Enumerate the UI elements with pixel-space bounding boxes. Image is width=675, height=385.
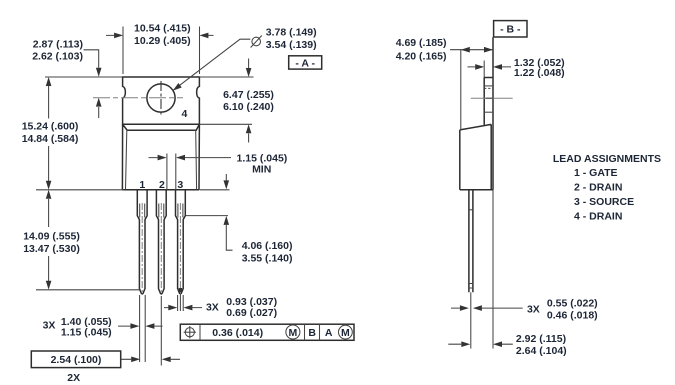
tab top edge extension right <box>199 76 253 78</box>
side view centerline dark dash at tab <box>486 97 494 99</box>
side view tab back face <box>492 37 494 190</box>
body bottom extension right <box>200 189 230 191</box>
side view lead <box>469 190 473 292</box>
dim 2.87/2.62 leader <box>84 50 99 118</box>
svg-text:B: B <box>308 327 316 339</box>
dim 0.93/0.69 arrows <box>164 307 202 309</box>
side view body outline <box>460 124 493 189</box>
dim 1.40/1.15 extension lines <box>140 295 146 362</box>
lead 2 centerline <box>160 203 162 292</box>
svg-text:10.54 (.415): 10.54 (.415) <box>134 23 191 35</box>
svg-text:- B -: - B - <box>500 24 521 36</box>
dim 15.24/14.84 dimension line <box>48 86 50 181</box>
dim 14.09/13.47 dimension line <box>48 199 50 281</box>
dim 2.92/2.64 arrows <box>448 343 513 345</box>
side view tab front face <box>483 78 485 125</box>
svg-text:4.20 (.165): 4.20 (.165) <box>396 51 447 63</box>
dim 4.69/4.20 extension line <box>460 50 462 130</box>
dim 1.15 MIN extension lines <box>167 154 176 190</box>
svg-text:3X: 3X <box>206 301 219 313</box>
svg-text:6.47 (.255): 6.47 (.255) <box>223 89 274 101</box>
mounting hole <box>147 84 175 112</box>
dim 2.54 box <box>31 351 120 368</box>
dim 2.54 arrows <box>121 358 180 360</box>
lead 1 inner neck lines <box>140 204 145 218</box>
svg-text:6.10 (.240): 6.10 (.240) <box>223 101 274 113</box>
side view lead kink mark <box>469 209 473 211</box>
datum A box <box>289 56 322 69</box>
svg-text:MIN: MIN <box>252 164 271 176</box>
svg-text:2.87 (.113): 2.87 (.113) <box>33 38 83 50</box>
svg-text:2X: 2X <box>67 372 80 384</box>
svg-text:1 - GATE: 1 - GATE <box>574 167 618 179</box>
diameter symbol <box>251 36 262 48</box>
dim 0.93/0.69 extension lines <box>178 295 184 311</box>
svg-text:3.78 (.149): 3.78 (.149) <box>266 27 317 39</box>
svg-text:4 - DRAIN: 4 - DRAIN <box>574 211 622 223</box>
svg-text:2.62 (.103): 2.62 (.103) <box>32 51 83 63</box>
svg-text:3 - SOURCE: 3 - SOURCE <box>574 196 634 208</box>
hole diameter leader <box>173 39 251 90</box>
side view back face extension down <box>492 190 494 349</box>
hole horizontal centerline <box>93 97 183 99</box>
lead 3 centerline <box>179 203 181 292</box>
side view hole hidden lines <box>484 85 493 87</box>
svg-text:0.36 (.014): 0.36 (.014) <box>212 327 263 339</box>
svg-text:0.55 (.022): 0.55 (.022) <box>547 297 598 309</box>
svg-text:3X: 3X <box>527 304 540 316</box>
side view hole centerline <box>471 97 513 99</box>
svg-text:15.24 (.600): 15.24 (.600) <box>22 121 79 133</box>
position tolerance symbol <box>184 326 196 338</box>
lead 2 inner neck lines <box>159 204 164 218</box>
side view tab front extension up <box>483 61 485 78</box>
svg-text:4.69 (.185): 4.69 (.185) <box>396 37 447 49</box>
dim 10.54/10.29 extension lines <box>123 27 200 75</box>
lead 3 inner neck lines <box>178 204 183 218</box>
dim 0.55/0.46 arrows <box>451 307 523 309</box>
dim 10.54/10.29 dimension line and arrows <box>106 34 214 36</box>
svg-text:4: 4 <box>181 108 187 120</box>
lead 1 outline <box>137 190 147 294</box>
hole vertical centerline <box>160 81 162 116</box>
lead tip extension left <box>36 289 139 291</box>
svg-text:1.15 (.045): 1.15 (.045) <box>61 327 112 339</box>
lead 3 shoulder extension right <box>186 215 228 217</box>
svg-text:2.64 (.104): 2.64 (.104) <box>516 345 567 357</box>
tab bottom extension right <box>199 123 252 125</box>
dim 1.32/1.22 arrows <box>468 66 512 68</box>
svg-text:13.47 (.530): 13.47 (.530) <box>23 243 80 255</box>
lead 2 outline <box>156 190 166 294</box>
tab top edge extension left <box>45 76 123 78</box>
lead 2 centerline extension <box>160 296 162 366</box>
front view body outline <box>122 124 199 190</box>
dim 6.47/6.10 arrows <box>248 59 250 143</box>
svg-text:2.92 (.115): 2.92 (.115) <box>516 333 566 345</box>
dim 4.06/3.55 arrows and leader <box>226 174 232 250</box>
feature control frame box <box>180 324 354 340</box>
modifier M circle 2 <box>339 325 353 339</box>
svg-text:- A -: - A - <box>295 57 315 69</box>
svg-text:0.93 (.037): 0.93 (.037) <box>226 296 277 308</box>
svg-text:10.29 (.405): 10.29 (.405) <box>134 35 191 47</box>
body bottom extension left <box>36 189 124 191</box>
dim 4.69/4.20 dimension line <box>450 49 493 51</box>
front view body inner mold lines <box>126 130 197 189</box>
dim 1.40/1.15 arrows <box>118 325 163 327</box>
svg-text:3X: 3X <box>43 320 56 332</box>
svg-text:0.69 (.027): 0.69 (.027) <box>226 307 277 319</box>
svg-text:2 - DRAIN: 2 - DRAIN <box>574 182 622 194</box>
lead 3 outline <box>176 190 186 294</box>
svg-text:3: 3 <box>177 179 183 191</box>
front view mounting tab outline <box>123 77 200 124</box>
svg-text:1: 1 <box>139 179 145 191</box>
svg-text:3.54 (.139): 3.54 (.139) <box>266 39 317 51</box>
lead 3 tip section mark <box>179 288 183 292</box>
datum B box <box>494 21 527 37</box>
svg-text:2: 2 <box>159 179 165 191</box>
modifier M circle 1 <box>286 325 300 339</box>
feature control frame dividers <box>200 324 320 340</box>
side view lead centerline extension <box>470 292 472 348</box>
side view lead tip marks <box>469 284 473 289</box>
svg-text:3.55 (.140): 3.55 (.140) <box>242 252 293 264</box>
svg-text:1.15 (.045): 1.15 (.045) <box>237 152 288 164</box>
side view tab top edge <box>484 77 493 79</box>
svg-text:A: A <box>325 327 333 339</box>
lead 3 centerline extension <box>179 294 181 311</box>
svg-text:2.54 (.100): 2.54 (.100) <box>51 354 102 366</box>
svg-text:M: M <box>341 327 350 339</box>
svg-text:14.84 (.584): 14.84 (.584) <box>22 133 79 145</box>
svg-text:4.06 (.160): 4.06 (.160) <box>242 240 293 252</box>
svg-text:14.09 (.555): 14.09 (.555) <box>23 231 80 243</box>
side view hole bottom line <box>484 111 493 113</box>
svg-text:0.46 (.018): 0.46 (.018) <box>547 309 598 321</box>
svg-text:LEAD ASSIGNMENTS: LEAD ASSIGNMENTS <box>553 153 661 165</box>
lead 1 centerline <box>141 203 143 292</box>
svg-text:1.22 (.048): 1.22 (.048) <box>514 67 565 79</box>
dim 1.15 MIN arrows <box>149 157 232 159</box>
svg-text:M: M <box>289 327 298 339</box>
